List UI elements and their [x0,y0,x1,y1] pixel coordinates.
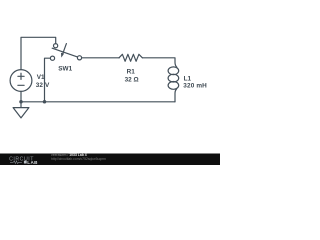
V1 plus sign [18,73,24,79]
svg-text:L1: L1 [184,75,192,82]
switch SW1 blade [52,48,77,57]
svg-text:V: V [45,82,50,89]
switch SW1 arrow head [61,53,64,58]
svg-text:32: 32 [36,82,44,89]
svg-text:http //circuitlab.com/c752sqkw: http //circuitlab.com/c752sqkw5uqmn [51,157,106,161]
wire R1 to L1 [142,58,176,67]
node junction dot left [19,100,23,104]
inductor L1 [168,67,179,75]
wire switch common to R1 [82,57,120,59]
wire V1 bottom [20,91,22,101]
CircuitLab logo squiggle [10,161,22,164]
wire bottom rail [21,101,175,103]
switch SW1 terminal lower throw [50,56,54,60]
CircuitLab logo LAB [24,161,27,164]
svg-text:LAB: LAB [27,160,38,165]
node junction dot middle [43,100,47,104]
resistor R1 [119,54,142,61]
svg-text:R1: R1 [127,69,136,76]
switch SW1 terminal top throw [54,44,58,48]
svg-text:SW1: SW1 [58,66,72,73]
svg-text:320 mH: 320 mH [183,82,207,89]
svg-text:V1: V1 [37,74,45,81]
svg-text:32 Ω: 32 Ω [125,76,139,83]
ground [13,102,29,118]
V1 minus sign [18,84,24,86]
switch SW1 terminal common [77,56,81,60]
wire L1 bottom [175,89,177,102]
wire V1 top to switch top throw [21,37,56,69]
switch SW1 actuator arrow [63,44,66,53]
voltage source V1 [10,70,32,92]
wire switch lower throw to bottom rail [45,58,51,102]
watermark bar [0,154,220,166]
